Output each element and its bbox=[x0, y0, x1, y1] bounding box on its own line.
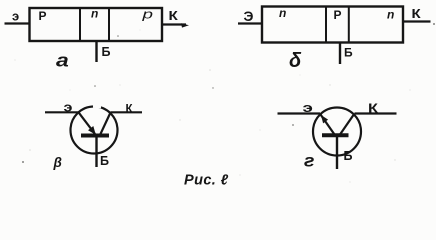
emitter wire (structure b) bbox=[238, 22, 262, 24]
npn structure block (b) body bbox=[262, 7, 403, 43]
svg-text:δ: δ bbox=[289, 50, 302, 72]
region label n (left, structure b) bbox=[279, 6, 286, 20]
label Э emitter (structure b) bbox=[244, 8, 254, 24]
pnp structure block Q(a) body bbox=[30, 8, 163, 41]
region label n (right, structure b) bbox=[387, 8, 394, 22]
region label n (middle, structure a) bbox=[91, 7, 98, 21]
svg-text:Б: Б bbox=[100, 154, 109, 168]
label Э emitter (structure a) bbox=[12, 9, 19, 24]
sub-figure label в bbox=[53, 155, 62, 170]
label К collector (structure b) bbox=[412, 7, 422, 21]
collector wire (structure b) bbox=[403, 20, 431, 22]
base wire (structure b) bbox=[339, 43, 341, 65]
sub-figure label а bbox=[56, 50, 69, 71]
label Б base (symbol g) bbox=[344, 149, 353, 163]
label К collector (symbol v) bbox=[126, 104, 134, 116]
svg-text:Р: Р bbox=[334, 8, 342, 22]
svg-text:n: n bbox=[387, 8, 394, 22]
collector lead diagonal (symbol g) bbox=[340, 114, 355, 135]
label Б base (symbol v) bbox=[100, 154, 109, 168]
svg-text:Б: Б bbox=[102, 45, 111, 59]
collector wire (symbol g) bbox=[355, 112, 397, 114]
svg-text:β: β bbox=[53, 155, 62, 170]
svg-text:а: а bbox=[56, 50, 69, 71]
collector lead diagonal (symbol v) bbox=[100, 113, 111, 136]
collector wire (symbol v) bbox=[111, 111, 143, 113]
svg-text:р: р bbox=[141, 7, 153, 21]
svg-text:n: n bbox=[91, 7, 98, 21]
base wire (symbol g) bbox=[336, 136, 338, 169]
svg-text:Б: Б bbox=[344, 46, 353, 60]
svg-text:n: n bbox=[279, 6, 286, 20]
svg-text:К: К bbox=[126, 104, 134, 116]
label К collector (structure a) bbox=[169, 8, 179, 22]
base wire (symbol v) bbox=[95, 136, 97, 167]
pnp transistor symbol (v) circle bbox=[71, 106, 118, 153]
svg-text:Рис. ℓ: Рис. ℓ bbox=[184, 173, 229, 189]
sub-figure label б bbox=[289, 50, 302, 72]
svg-text:э: э bbox=[303, 101, 313, 115]
emitter wire (symbol g) bbox=[278, 112, 321, 114]
svg-text:К: К bbox=[169, 8, 179, 22]
figure caption Рис. 1 bbox=[184, 173, 229, 189]
npn transistor symbol (g) circle bbox=[313, 108, 361, 156]
sub-figure label г bbox=[304, 150, 314, 170]
svg-text:э: э bbox=[64, 101, 73, 115]
svg-text:К: К bbox=[412, 7, 422, 21]
label Б base (structure b) bbox=[344, 46, 353, 60]
base bar (symbol v) bbox=[81, 134, 109, 138]
base bar (symbol g) bbox=[322, 133, 349, 137]
collector wire (structure a) bbox=[162, 23, 189, 27]
svg-text:Б: Б bbox=[344, 149, 353, 163]
label Б base (structure a) bbox=[102, 45, 111, 59]
svg-text:Э: Э bbox=[244, 8, 254, 24]
svg-text:э: э bbox=[12, 9, 19, 24]
label э emitter (symbol g) bbox=[303, 101, 313, 115]
label э emitter (symbol v) bbox=[64, 101, 73, 115]
region label p (right, structure a, faint) bbox=[141, 7, 153, 21]
region label p (middle, structure b) bbox=[334, 8, 342, 22]
emitter arrow pointing out (npn, symbol g) bbox=[320, 114, 335, 135]
svg-text:К: К bbox=[368, 102, 378, 116]
emitter arrow pointing to base (pnp, symbol v) bbox=[79, 112, 96, 135]
svg-text:Р: Р bbox=[39, 9, 47, 23]
emitter wire (symbol v) bbox=[45, 111, 79, 113]
svg-text:г: г bbox=[304, 150, 314, 170]
region label p (left, structure a) bbox=[39, 9, 47, 23]
base wire (structure a) bbox=[95, 41, 97, 62]
emitter wire (structure a) bbox=[5, 22, 30, 24]
label К collector (symbol g) bbox=[368, 102, 378, 116]
